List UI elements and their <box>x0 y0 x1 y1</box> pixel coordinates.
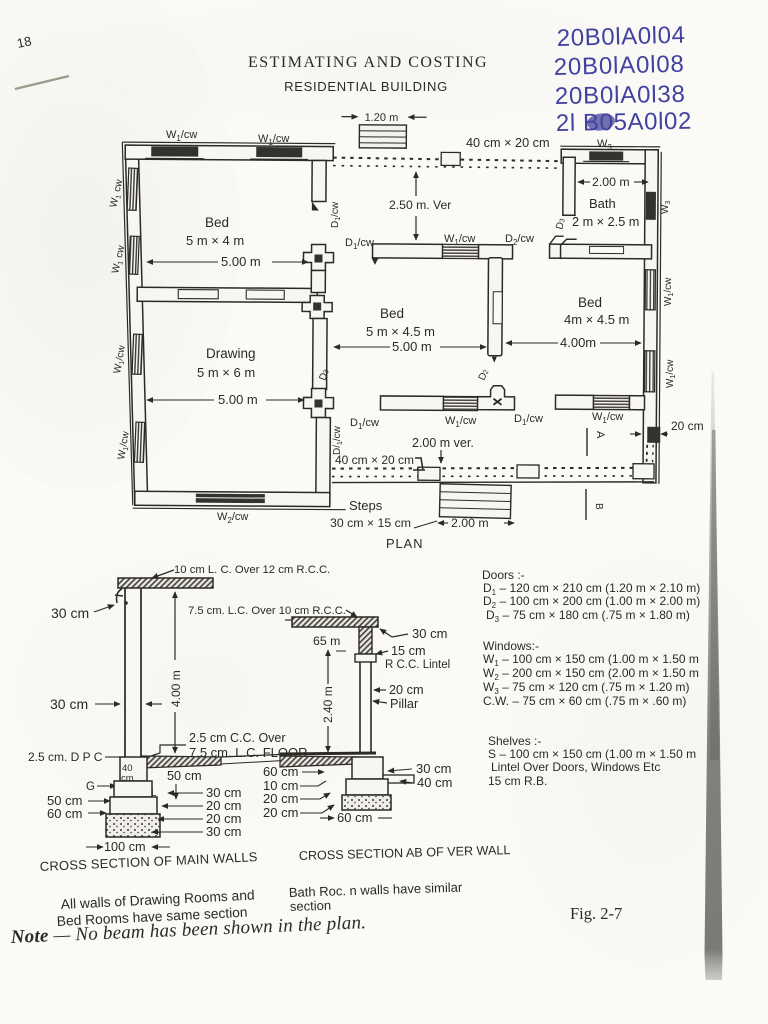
svg-text:D/1/cw: D/1/cw <box>332 425 344 455</box>
bath top window W3 <box>589 151 623 160</box>
svg-text:2.50 m. Ver: 2.50 m. Ver <box>389 198 451 212</box>
top wall window W1 #2 <box>256 147 302 157</box>
svg-text:40 cm: 40 cm <box>417 775 452 790</box>
svg-text:W1/cw: W1/cw <box>166 129 197 143</box>
svg-text:5.00 m: 5.00 m <box>218 392 258 407</box>
top steps 1.20m <box>359 125 406 148</box>
wall between beds (vertical) <box>488 258 503 356</box>
foundation course 2 <box>114 781 152 797</box>
outer contour double lines <box>122 142 335 143</box>
pillar foundation course 2 <box>346 779 388 795</box>
svg-text:Lintel Over Doors, Windows Etc: Lintel Over Doors, Windows Etc <box>491 760 660 774</box>
svg-text:W1/cw: W1/cw <box>663 277 675 306</box>
left wall window W1 b <box>129 236 140 274</box>
pencil diagonal stroke <box>15 76 69 89</box>
bath door D3 stub <box>550 215 576 244</box>
svg-text:B: B <box>593 503 604 510</box>
dim 60 cm bottom <box>320 817 334 819</box>
dim 2.00 m (bath) <box>578 181 590 183</box>
svg-text:A: A <box>594 431 606 439</box>
svg-text:20B0lA0l04: 20B0lA0l04 <box>556 22 685 52</box>
drawing SE corner wall to bottom <box>316 417 331 505</box>
slab drip at left <box>115 589 123 603</box>
hatched wall above lintel <box>359 627 372 654</box>
pillar foundation course 1 <box>352 757 383 779</box>
verandah east dotted edge <box>646 445 647 480</box>
bath bottom wall with shelf <box>550 244 652 259</box>
svg-text:W2/cw: W2/cw <box>217 511 248 525</box>
svg-text:50 cm: 50 cm <box>167 769 202 783</box>
verandah bottom pillar 1 <box>418 467 440 480</box>
svg-text:100 cm: 100 cm <box>104 840 146 854</box>
svg-text:Doors :-: Doors :- <box>482 568 525 582</box>
drawing right wall <box>313 318 327 389</box>
door D2 stub <box>560 239 576 259</box>
svg-text:5.00 m: 5.00 m <box>392 339 432 354</box>
svg-text:40 cm × 20 cm: 40 cm × 20 cm <box>335 453 414 467</box>
svg-text:W1/cw: W1/cw <box>258 133 289 147</box>
svg-text:Bed: Bed <box>578 295 602 310</box>
bottom-left block bottom wall <box>135 491 330 506</box>
svg-text:W1/cw: W1/cw <box>592 411 623 425</box>
svg-text:G: G <box>86 781 95 793</box>
Bed1 bottom wall <box>137 287 317 302</box>
svg-text:60 cm: 60 cm <box>263 764 298 779</box>
svg-text:2.00 m: 2.00 m <box>592 175 630 189</box>
bath left wall <box>563 157 575 215</box>
svg-text:2.00 m ver.: 2.00 m ver. <box>412 436 474 450</box>
bath top wall <box>561 149 658 164</box>
svg-text:30 cm: 30 cm <box>51 605 89 621</box>
svg-text:65 m: 65 m <box>313 634 340 648</box>
section line B <box>585 489 587 520</box>
handwritten scribble blot <box>586 112 616 133</box>
bottom wall segment 4 <box>629 396 644 410</box>
svg-text:Bed: Bed <box>205 215 229 230</box>
door jamb cross D2 (bottom of bed wall) <box>477 386 514 410</box>
svg-text:W1/cw: W1/cw <box>445 415 476 429</box>
svg-text:RESIDENTIAL BUILDING: RESIDENTIAL BUILDING <box>284 79 448 94</box>
foundation course 1 (40cm) <box>120 757 147 781</box>
svg-text:40 cm × 20 cm: 40 cm × 20 cm <box>466 136 550 150</box>
svg-text:7.5 cm. L.C. Over 10 cm R.C.C.: 7.5 cm. L.C. Over 10 cm R.C.C. <box>188 605 346 617</box>
svg-text:5 m × 4 m: 5 m × 4 m <box>186 233 244 248</box>
dim 4.00m <box>506 342 558 344</box>
svg-text:Fig. 2-7: Fig. 2-7 <box>570 904 622 923</box>
svg-text:15 cm R.B.: 15 cm R.B. <box>488 774 547 788</box>
svg-text:15 cm: 15 cm <box>391 644 426 658</box>
verandah bottom pillar 3 <box>633 464 654 479</box>
svg-text:20B0lA0l38: 20B0lA0l38 <box>555 81 686 110</box>
dim 5.00 m (bed mid) <box>334 346 390 348</box>
svg-text:Pillar: Pillar <box>390 697 419 711</box>
door jamb cross D3 (drawing SE) <box>303 388 333 417</box>
svg-text:S – 100 cm × 150 cm (1.00 m ×: S – 100 cm × 150 cm (1.00 m × 1.50 m <box>488 747 696 761</box>
svg-text:D1/cw: D1/cw <box>345 237 374 251</box>
svg-text:W1/cw: W1/cw <box>444 233 475 247</box>
svg-text:Bed: Bed <box>380 306 404 321</box>
svg-text:R C.C. Lintel: R C.C. Lintel <box>385 659 450 671</box>
svg-text:ESTIMATING AND COSTING: ESTIMATING AND COSTING <box>248 54 488 71</box>
svg-text:20 cm: 20 cm <box>389 683 424 697</box>
svg-text:20 cm: 20 cm <box>671 419 704 433</box>
top wall window W1 #1 <box>151 146 198 156</box>
svg-text:60 cm: 60 cm <box>47 806 82 821</box>
bottom wall segment 3 (right bed) <box>555 395 593 409</box>
svg-text:5 m × 6 m: 5 m × 6 m <box>197 365 255 380</box>
foundation course 3 <box>110 797 157 814</box>
left wall window W1 a <box>127 168 138 210</box>
svg-text:18: 18 <box>16 33 33 51</box>
svg-text:30 cm: 30 cm <box>412 626 447 641</box>
svg-text:20 cm: 20 cm <box>263 805 298 820</box>
svg-text:60 cm: 60 cm <box>337 810 372 825</box>
bottom wall window W1 (mid) <box>443 396 477 410</box>
svg-text:2.5 cm. D P C: 2.5 cm. D P C <box>28 750 103 764</box>
svg-text:Shelves :-: Shelves :- <box>488 734 541 748</box>
Bed1 right wall stub <box>312 160 326 201</box>
roof slab (ver wall) <box>292 617 378 627</box>
svg-text:D1/cw: D1/cw <box>514 413 543 427</box>
door jamb cross at drawing NE <box>302 295 332 318</box>
shelf recess in bed wall <box>493 292 502 324</box>
dim 2.50 m Ver vertical arrow <box>415 172 417 196</box>
svg-text:2.00 m: 2.00 m <box>451 516 489 530</box>
svg-text:D2/cw: D2/cw <box>505 233 534 247</box>
dimension 1.20 m <box>341 112 426 125</box>
bottom wall window W1 (right) <box>593 395 629 409</box>
svg-text:5.00 m: 5.00 m <box>221 254 261 269</box>
svg-text:30 cm: 30 cm <box>206 824 241 839</box>
floor line <box>280 753 376 754</box>
svg-text:30 cm: 30 cm <box>416 761 451 776</box>
floor slab wedge (ver) <box>280 756 356 767</box>
bottom steps <box>439 484 511 519</box>
svg-text:Windows:-: Windows:- <box>483 639 539 653</box>
svg-text:W1/cw: W1/cw <box>665 359 677 388</box>
wall bed1-jamb to bottom <box>311 270 325 292</box>
svg-text:D1/cw: D1/cw <box>350 417 379 431</box>
svg-text:C.W. – 75 cm × 60 cm (.75 m ×: C.W. – 75 cm × 60 cm (.75 m × .60 m) <box>483 694 686 708</box>
section line A <box>586 428 588 456</box>
svg-text:4.00m: 4.00m <box>560 335 596 350</box>
svg-text:4.00 m: 4.00 m <box>169 670 183 707</box>
svg-text:Bath: Bath <box>589 196 616 211</box>
svg-text:30 cm × 15 cm: 30 cm × 15 cm <box>330 516 411 530</box>
dim 100 cm <box>86 846 103 848</box>
svg-text:Drawing: Drawing <box>206 346 256 361</box>
verandah top pillar <box>441 152 460 165</box>
dim 5.00 m (drawing) <box>147 399 214 401</box>
svg-text:D3 – 75 cm × 180 cm (.75 m × 1: D3 – 75 cm × 180 cm (.75 m × 1.80 m) <box>486 608 690 624</box>
pillar verticals <box>359 662 361 753</box>
svg-text:2.40 m: 2.40 m <box>321 686 335 723</box>
svg-text:30 cm: 30 cm <box>50 696 88 712</box>
dim 5.00 m (bed1) <box>147 261 218 263</box>
dim 2.00 m steps <box>438 522 448 524</box>
verandah open edge dotted (top) <box>333 158 563 169</box>
floor slab wedge <box>141 756 221 768</box>
svg-text:2 m × 2.5 m: 2 m × 2.5 m <box>572 215 639 229</box>
svg-text:PLAN: PLAN <box>386 536 423 551</box>
svg-text:Steps: Steps <box>349 498 383 513</box>
svg-text:20B0lA0l08: 20B0lA0l08 <box>553 51 684 81</box>
door jamb cross D1 (bed1 SE) <box>303 244 333 270</box>
40 cm course bar <box>383 775 414 783</box>
bottom wall segment 1 <box>380 396 443 410</box>
right wall window W3 <box>646 192 656 220</box>
dim 4.00 m vertical <box>174 592 176 660</box>
bottom wall window W2 <box>196 494 265 503</box>
scan edge shadow band <box>705 372 723 980</box>
mid wall segment to T <box>479 245 513 259</box>
svg-text:5 m × 4.5 m: 5 m × 4.5 m <box>366 324 435 339</box>
mid wall window W1 <box>443 244 479 258</box>
bottom verandah dotted open edge <box>332 466 654 485</box>
svg-text:2.5 cm C.C. Over: 2.5 cm C.C. Over <box>189 731 286 745</box>
exterior right wall <box>643 150 658 483</box>
svg-text:1.20 m: 1.20 m <box>365 112 399 124</box>
Bed1 bottom window a <box>178 290 218 299</box>
right wall window W1 lower <box>645 351 655 392</box>
svg-text:D1/cw: D1/cw <box>330 201 342 228</box>
svg-text:section: section <box>290 898 332 914</box>
Bed1 bottom window b <box>246 290 284 299</box>
right wall window W1 upper <box>645 270 655 310</box>
verandah corner pillar 20cm <box>647 427 660 443</box>
exterior top wall <box>125 145 333 160</box>
verandah bottom pillar 2 <box>517 465 539 478</box>
svg-text:2l B05A0l02: 2l B05A0l02 <box>556 108 692 137</box>
small pillar tick <box>413 458 425 470</box>
mid wall segment (bed 5x4.5 top) <box>373 244 443 258</box>
exterior left wall <box>123 145 151 504</box>
left wall window W1 d <box>134 422 145 462</box>
lintel block <box>355 654 376 662</box>
main wall verticals <box>124 588 126 757</box>
left wall window W1 c <box>132 334 143 374</box>
svg-text:20 cm: 20 cm <box>263 791 298 806</box>
pillar foundation base <box>342 795 391 810</box>
svg-text:4m × 4.5 m: 4m × 4.5 m <box>564 312 629 327</box>
roof slab (main wall) <box>118 578 213 588</box>
foundation base <box>106 814 160 837</box>
svg-text:10 cm L. C. Over 12 cm R.C.C.: 10 cm L. C. Over 12 cm R.C.C. <box>174 564 330 576</box>
